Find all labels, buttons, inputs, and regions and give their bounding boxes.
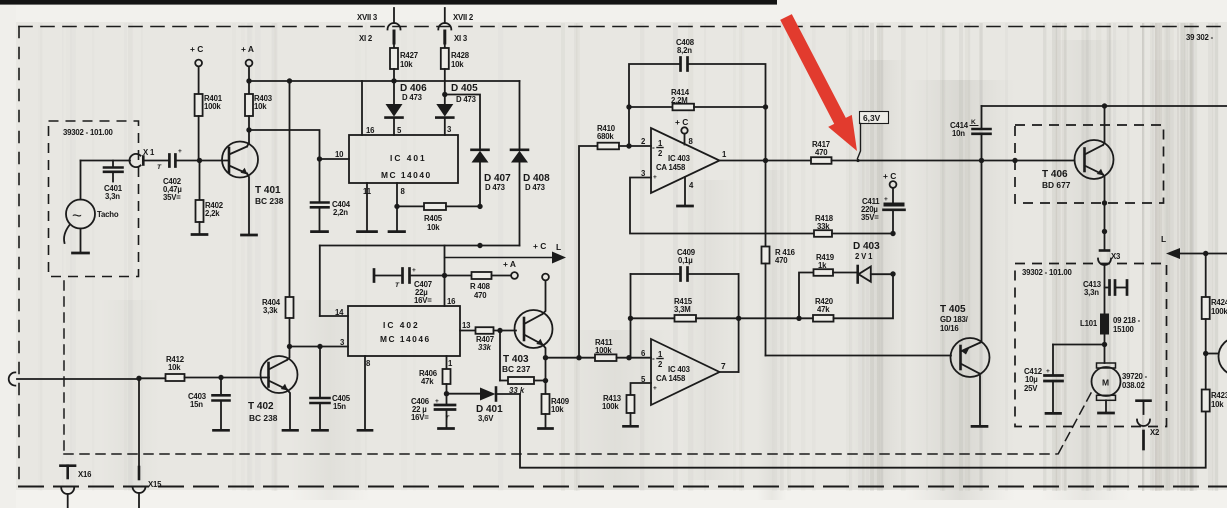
svg-text:33k: 33k: [817, 222, 830, 231]
svg-text:3,3M: 3,3M: [674, 305, 691, 314]
connector X2: [1137, 401, 1161, 449]
svg-text:10: 10: [335, 150, 344, 159]
svg-text:~: ~: [72, 206, 82, 225]
svg-text:BC 237: BC 237: [502, 364, 531, 374]
svg-text:47k: 47k: [817, 305, 830, 314]
tacho dashed box 39302-101.00: [49, 121, 139, 277]
wire T401 collector to IC401 pin10 column: [249, 130, 320, 159]
svg-text:D 473: D 473: [402, 93, 423, 102]
svg-text:33k: 33k: [478, 343, 492, 352]
6,3V measuring point: [856, 112, 888, 163]
svg-text:D 473: D 473: [525, 183, 546, 192]
svg-text:470: 470: [474, 291, 487, 300]
svg-text:D 403: D 403: [853, 241, 880, 252]
svg-text:+: +: [884, 196, 888, 203]
op-amp1 output wire: [720, 107, 812, 163]
ground (C412): [1046, 412, 1061, 415]
capacitor C413: [1083, 265, 1127, 314]
capacitor C412: [1024, 345, 1105, 414]
ground (T401 emitter): [242, 234, 257, 237]
svg-text:-: -: [652, 353, 655, 363]
IC402 pin8 to ground: [358, 356, 372, 430]
node L101/C412: [1102, 342, 1107, 347]
ground (R402): [192, 233, 207, 236]
node C407/R408/pin16: [442, 246, 447, 307]
svg-text:680k: 680k: [597, 132, 614, 141]
svg-text:16V=: 16V=: [414, 296, 432, 305]
T403 collector terminal circle: [542, 274, 549, 281]
diode D406: [386, 81, 428, 135]
svg-text:R423: R423: [1211, 391, 1227, 400]
motor dashed box 39302-101.00: [1015, 264, 1167, 427]
svg-text:+ A: + A: [241, 44, 254, 54]
node T401 base: [197, 158, 202, 163]
svg-text:IC 401: IC 401: [390, 153, 427, 163]
capacitor C403: [188, 375, 230, 430]
resistor R409: [542, 358, 570, 428]
node +A rail: [246, 78, 251, 83]
svg-text:+ C: + C: [883, 171, 896, 181]
tacho generator: [64, 161, 119, 253]
zener diode D403 2V1: [853, 241, 896, 283]
svg-text:10n: 10n: [952, 129, 965, 138]
svg-text:2 V 1: 2 V 1: [855, 252, 873, 261]
svg-text:100k: 100k: [595, 346, 612, 355]
svg-text:+: +: [412, 267, 416, 274]
motor M: [1092, 363, 1148, 413]
svg-text:09 218 -: 09 218 -: [1113, 316, 1141, 325]
svg-text:+ A: + A: [503, 259, 516, 269]
svg-text:10µ: 10µ: [1025, 375, 1038, 384]
svg-text:IC 403: IC 403: [668, 365, 691, 374]
op-amp U2 (2/2 IC403 CA1458): [641, 339, 726, 405]
svg-text:+: +: [653, 174, 657, 181]
svg-text:8,2n: 8,2n: [677, 46, 692, 55]
svg-text:R 408: R 408: [470, 282, 491, 291]
op-amp1 pin3 wire to R418: [630, 178, 814, 234]
svg-text:14: 14: [335, 308, 344, 317]
svg-text:IC 402: IC 402: [383, 320, 420, 330]
inductor L101: [1080, 314, 1141, 364]
svg-text:R405: R405: [424, 214, 443, 223]
ground (C404): [312, 230, 328, 233]
wire +A rail to right: [249, 78, 520, 84]
svg-text:15100: 15100: [1113, 325, 1135, 334]
svg-text:X2: X2: [1150, 428, 1160, 437]
connector XVII 3 / XI 2: [357, 8, 401, 48]
svg-text:100k: 100k: [204, 102, 221, 111]
svg-text:BD 677: BD 677: [1042, 180, 1071, 190]
svg-text:D 405: D 405: [451, 83, 478, 94]
wire output to T406 base: [982, 158, 1075, 163]
svg-text:K: K: [971, 119, 976, 126]
capacitor C405: [311, 347, 351, 431]
resistor 33k (T403 base-emitter): [500, 331, 546, 396]
svg-text:T 402: T 402: [248, 401, 274, 412]
resistor R410: [579, 124, 651, 358]
svg-text:L: L: [556, 242, 561, 252]
svg-text:X3: X3: [1111, 252, 1121, 261]
capacitor C404: [311, 159, 351, 232]
node T403 base: [497, 328, 502, 333]
L arrow (right): [1161, 234, 1227, 259]
wire tacho to X1: [81, 160, 131, 162]
transistor T403: [502, 281, 553, 375]
svg-text:39302 - 101.00: 39302 - 101.00: [63, 128, 114, 137]
svg-text:MC 14046: MC 14046: [380, 334, 431, 344]
sheet number 39 302 -: [1186, 33, 1214, 42]
svg-text:16: 16: [447, 297, 456, 306]
transistor T402: [248, 347, 298, 431]
svg-text:MC 14040: MC 14040: [381, 170, 432, 180]
capacitor C414: [950, 106, 991, 161]
svg-text:GD 183/: GD 183/: [940, 315, 969, 324]
resistor R414: [626, 88, 768, 110]
resistor R417: [811, 140, 982, 164]
node base of edge transistor: [1203, 351, 1219, 356]
svg-text:10k: 10k: [254, 102, 267, 111]
svg-text:6,3V: 6,3V: [863, 113, 881, 123]
transistor T406: [1042, 106, 1114, 250]
op-amp2 output wire: [720, 274, 742, 372]
wire X1 to C402: [143, 160, 169, 162]
svg-text:R424: R424: [1211, 298, 1227, 307]
wire T405 base: [766, 355, 952, 357]
diode D405: [436, 83, 478, 135]
left edge connector: [9, 372, 139, 385]
svg-text:13: 13: [462, 321, 471, 330]
svg-text:XVII 3: XVII 3: [357, 13, 378, 22]
svg-text:+ C: + C: [190, 44, 203, 54]
ground (tacho): [73, 252, 89, 255]
capacitor C409: [631, 248, 739, 281]
svg-text:+: +: [653, 385, 657, 392]
svg-text:16: 16: [366, 126, 375, 135]
svg-text:R427: R427: [400, 51, 418, 60]
wire mixing net y318: [739, 316, 813, 321]
svg-text:X15: X15: [148, 480, 162, 489]
svg-text:IC 403: IC 403: [668, 154, 691, 163]
svg-text:100k: 100k: [602, 402, 619, 411]
ground (T405): [972, 425, 987, 428]
ground (T402 emitter): [283, 429, 298, 432]
IC401 MC14040: [335, 81, 458, 196]
svg-text:XVII 2: XVII 2: [453, 13, 474, 22]
connector X16: [61, 466, 93, 508]
svg-text:1k: 1k: [818, 261, 827, 270]
svg-text:M: M: [1102, 378, 1109, 388]
svg-text:038.02: 038.02: [1122, 381, 1146, 390]
svg-text:+ C: + C: [533, 241, 546, 251]
resistor R402: [196, 161, 224, 235]
+C supply terminal: [190, 44, 203, 94]
resistor R428: [441, 48, 470, 95]
svg-text:+: +: [178, 148, 182, 155]
svg-text:10k: 10k: [1211, 400, 1224, 409]
resistor R401: [195, 94, 223, 161]
capacitor C406: [411, 394, 455, 428]
svg-text:X 1: X 1: [143, 148, 155, 157]
resistor R413: [602, 383, 651, 426]
svg-text:10/16: 10/16: [940, 324, 959, 333]
svg-text:15n: 15n: [333, 402, 346, 411]
top black page-edge bar: [0, 0, 777, 5]
svg-text:0,1µ: 0,1µ: [678, 256, 693, 265]
node 33k/R409: [543, 378, 548, 383]
capacitor C402: [157, 148, 182, 202]
node C414/T405/output: [979, 158, 984, 163]
+C L arrow (supply tap): [445, 241, 567, 264]
svg-text:BC 238: BC 238: [249, 413, 278, 423]
svg-text:25V: 25V: [1024, 384, 1038, 393]
svg-text:XI 3: XI 3: [454, 34, 468, 43]
svg-text:L101: L101: [1080, 319, 1098, 328]
svg-text:2,2M: 2,2M: [671, 96, 688, 105]
wire D405 node to D407: [445, 95, 480, 150]
svg-text:CA 1458: CA 1458: [656, 163, 686, 172]
resistor R415: [628, 274, 739, 358]
IC401 pin10 wire: [317, 156, 349, 161]
svg-text:470: 470: [775, 256, 788, 265]
capacitor C411: [861, 188, 905, 236]
svg-text:35V=: 35V=: [861, 213, 879, 222]
svg-text:2,2n: 2,2n: [333, 208, 348, 217]
resistor R411: [595, 338, 651, 361]
node T406 emitter/box crossing: [1102, 200, 1107, 234]
+A supply terminal: [241, 44, 254, 81]
svg-text:+ C: + C: [675, 117, 688, 127]
IC401 pin8 to ground: [389, 183, 405, 232]
connector X1: [129, 148, 154, 167]
node R403/T401 collector: [246, 127, 251, 132]
connector X3: [1098, 251, 1121, 266]
svg-text:D 473: D 473: [485, 183, 506, 192]
diode D401: [447, 388, 521, 424]
node R406/C406/D401: [444, 391, 449, 396]
red annotation arrow: [780, 14, 857, 151]
long bottom wire D401 to R423: [520, 394, 1206, 468]
resistor R412: [136, 355, 269, 381]
svg-text:2,2k: 2,2k: [205, 209, 220, 218]
wire C402 to T401 base: [175, 160, 229, 162]
op-amp1 pin4 ground: [678, 177, 693, 206]
svg-text:10k: 10k: [400, 60, 413, 69]
svg-text:D 473: D 473: [456, 95, 477, 104]
partial transistor at right edge: [1219, 338, 1227, 376]
svg-text:10k: 10k: [551, 405, 564, 414]
resistor R416: [762, 161, 796, 356]
ground (R409): [539, 427, 553, 430]
svg-text:10k: 10k: [427, 223, 440, 232]
wire collector rail y106: [982, 103, 1227, 108]
resistor R404: [262, 81, 294, 347]
+C terminal (op-amp1 pin8): [675, 117, 688, 145]
svg-text:T 401: T 401: [255, 185, 281, 196]
resistor R419: [799, 253, 857, 318]
ground (C406): [439, 427, 454, 430]
ground (R413): [624, 425, 638, 428]
svg-text:39302 - 101.00: 39302 - 101.00: [1022, 268, 1073, 277]
capacitor C407: [374, 267, 445, 305]
svg-text:10k: 10k: [451, 60, 464, 69]
connector X15: [133, 378, 163, 508]
svg-text:+: +: [1046, 368, 1050, 375]
svg-text:7: 7: [721, 361, 726, 371]
node T403 emitter: [543, 355, 548, 360]
capacitor C401: [104, 161, 123, 202]
svg-text:39 302 -: 39 302 -: [1186, 33, 1214, 42]
ground (C403): [214, 429, 229, 432]
transistor T405: [940, 161, 990, 427]
resistor R405: [397, 203, 483, 232]
+A terminal (R408): [503, 259, 518, 279]
resistor R424: [1202, 254, 1227, 354]
svg-text:15n: 15n: [190, 400, 203, 409]
svg-text:L: L: [1161, 234, 1166, 244]
svg-text:16V=: 16V=: [411, 413, 429, 422]
svg-text:CA 1458: CA 1458: [656, 374, 686, 383]
svg-text:35V=: 35V=: [163, 193, 181, 202]
wire IC402 pin14 net (long horizontal): [320, 243, 520, 316]
IC401 pin11 to ground: [358, 183, 377, 232]
T406 dashed box: [1015, 125, 1164, 203]
svg-text:XI 2: XI 2: [359, 34, 373, 43]
svg-text:T 405: T 405: [940, 304, 966, 315]
svg-text:X16: X16: [78, 470, 92, 479]
svg-text:39720 -: 39720 -: [1122, 372, 1148, 381]
resistor R406 (IC402 pin1): [419, 356, 451, 394]
svg-text:470: 470: [815, 148, 828, 157]
wire T403 emitter to opamp2 pin6: [546, 355, 596, 360]
svg-text:100k: 100k: [1211, 307, 1227, 316]
resistor R403: [245, 81, 273, 130]
svg-text:47k: 47k: [421, 377, 434, 386]
svg-text:33 k: 33 k: [509, 386, 525, 395]
capacitor C408: [629, 38, 766, 146]
resistor R418: [814, 214, 893, 237]
resistor R407: [460, 327, 516, 352]
ground (motor): [1099, 412, 1114, 415]
svg-text:3,3k: 3,3k: [263, 306, 278, 315]
svg-text:Tacho: Tacho: [97, 210, 119, 219]
connector XVII 2 / XI 3: [438, 8, 474, 48]
svg-text:T 406: T 406: [1042, 169, 1068, 180]
svg-text:-: -: [652, 142, 655, 152]
mechanical coupling dashed line: [64, 281, 1091, 458]
wire IC402 pin3 / T402 collector: [287, 344, 348, 349]
op-amp U1 (1/2 IC403 CA1458): [641, 128, 727, 193]
diode D407: [472, 150, 512, 207]
svg-text:10k: 10k: [168, 363, 181, 372]
diode D408: [511, 81, 550, 246]
resistor R427: [390, 48, 418, 81]
+C terminal (C411): [883, 171, 896, 188]
IC402 MC14046: [335, 297, 471, 368]
resistor R423: [1202, 354, 1227, 412]
ground (C405): [313, 429, 328, 432]
transistor T401: [222, 130, 284, 235]
svg-text:3,3n: 3,3n: [1084, 288, 1099, 297]
resistor R420: [813, 274, 893, 322]
svg-text:3,3n: 3,3n: [105, 192, 120, 201]
svg-text:BC 238: BC 238: [255, 196, 284, 206]
resistor R408: [445, 272, 512, 300]
svg-text:R428: R428: [451, 51, 470, 60]
svg-text:3,6V: 3,6V: [478, 414, 494, 423]
